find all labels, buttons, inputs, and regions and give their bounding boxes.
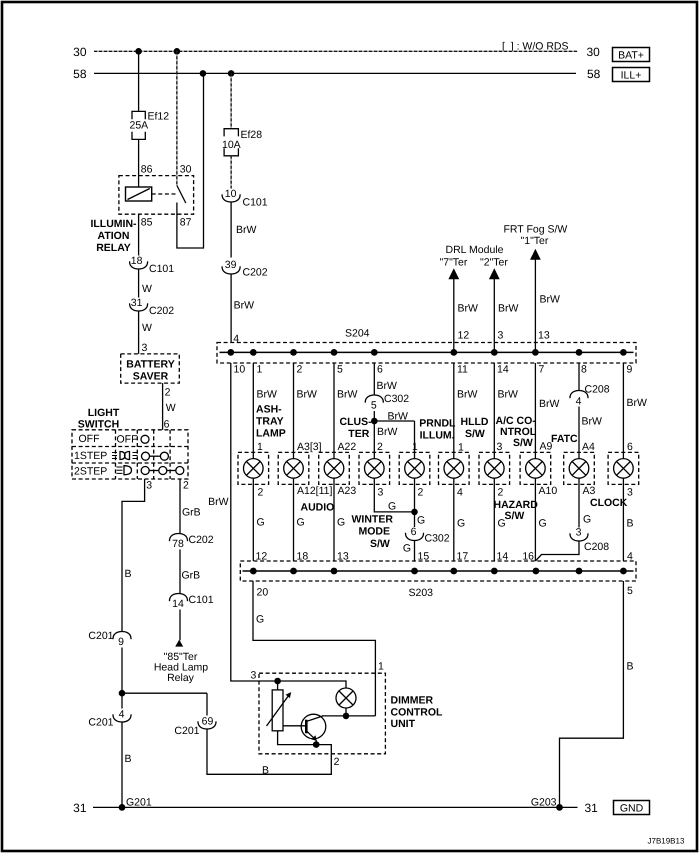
wire fuse Ef28 to C101-10 (dashed W/O RDS) xyxy=(230,156,232,189)
svg-text:2: 2 xyxy=(334,756,340,768)
svg-text:G201: G201 xyxy=(126,796,152,808)
wire to head lamp relay arrow xyxy=(179,610,181,641)
wire S204 pin 8 to C208-4 xyxy=(579,363,587,391)
svg-text:86: 86 xyxy=(141,163,153,175)
svg-text:PRNDL: PRNDL xyxy=(419,417,456,429)
lamp audio 1 xyxy=(278,452,309,484)
headlamp icon xyxy=(117,466,132,475)
relay coil-contact link xyxy=(152,193,176,195)
svg-text:GrB: GrB xyxy=(182,507,201,519)
connector C202 pin 78 xyxy=(169,534,213,551)
svg-text:S/W: S/W xyxy=(513,437,533,449)
svg-text:2: 2 xyxy=(297,364,303,376)
wire bus30 to relay contact 30 (dashed W/O RDS) xyxy=(177,51,192,185)
label FRT Fog SW terminal xyxy=(504,224,568,248)
fuse Ef28 10A xyxy=(222,129,262,156)
svg-text:OFF: OFF xyxy=(117,434,138,446)
svg-text:RELAY: RELAY xyxy=(96,242,131,254)
svg-text:12: 12 xyxy=(458,329,470,341)
svg-text:ASH-: ASH- xyxy=(256,404,282,416)
svg-text:LIGHT: LIGHT xyxy=(88,407,120,419)
svg-text:DIMMER: DIMMER xyxy=(391,695,434,707)
wire ashtray lamp to S203 pin 12 xyxy=(253,478,267,563)
wire BrW C101-10 to C202-39 xyxy=(231,202,256,258)
svg-text:ILLUMIN-: ILLUMIN- xyxy=(90,218,137,230)
svg-text:ILL+: ILL+ xyxy=(621,69,642,81)
node C302 branch xyxy=(371,418,378,425)
wire PRNDL lamp down xyxy=(415,478,426,527)
lamp audio 2 xyxy=(319,452,350,484)
wire rheostat bottom / emitter to pin 2 xyxy=(278,731,332,754)
wire C208-4 to A4 lamp xyxy=(579,407,602,459)
ground bus 31 xyxy=(73,801,598,815)
transistor Q1 xyxy=(283,714,326,744)
svg-text:C101: C101 xyxy=(149,263,174,275)
svg-text:18: 18 xyxy=(131,255,143,267)
svg-text:25A: 25A xyxy=(130,119,149,131)
connector C202 pin 39 xyxy=(222,259,268,279)
svg-text:3: 3 xyxy=(146,480,152,492)
fuse Ef12 25A xyxy=(130,111,170,140)
svg-text:3: 3 xyxy=(498,329,504,341)
svg-text:1STEP: 1STEP xyxy=(74,450,107,462)
svg-text:3: 3 xyxy=(627,486,633,498)
connector C101 pin 10 xyxy=(222,188,268,209)
svg-text:5: 5 xyxy=(337,364,343,376)
S203 junction dots xyxy=(250,568,627,575)
svg-text:G: G xyxy=(297,516,305,528)
bus 30 (BAT+) xyxy=(73,45,600,59)
illumination relay box xyxy=(119,176,194,215)
svg-text:6: 6 xyxy=(164,418,170,430)
svg-text:"2"Ter: "2"Ter xyxy=(480,257,508,269)
svg-text:G203: G203 xyxy=(531,796,557,808)
svg-text:SWITCH: SWITCH xyxy=(78,419,119,431)
svg-text:C302: C302 xyxy=(384,393,409,405)
svg-text:GND: GND xyxy=(620,802,644,814)
light switch box xyxy=(72,430,188,479)
svg-text:ILLUM.: ILLUM. xyxy=(420,429,455,441)
svg-text:A10: A10 xyxy=(539,485,558,497)
svg-text:14: 14 xyxy=(497,364,509,376)
svg-text:5: 5 xyxy=(371,399,377,411)
svg-text:G: G xyxy=(403,543,411,555)
svg-text:CLUS-: CLUS- xyxy=(340,416,373,428)
svg-text:6: 6 xyxy=(627,441,633,453)
wire junction to C201-69 xyxy=(122,692,207,694)
svg-text:BrW: BrW xyxy=(457,389,478,401)
svg-text:11: 11 xyxy=(457,364,468,376)
svg-text:58: 58 xyxy=(73,67,87,81)
park lamp icon xyxy=(112,452,138,460)
svg-text:G: G xyxy=(583,513,591,525)
svg-text:Relay: Relay xyxy=(167,672,195,684)
svg-text:UNIT: UNIT xyxy=(391,718,416,730)
svg-text:W: W xyxy=(142,322,152,334)
label CLUSTER xyxy=(340,416,373,440)
wire S204 pin 5 to audio lamp 2 xyxy=(334,363,358,459)
ground G203 xyxy=(531,796,563,810)
svg-text:CONTROL: CONTROL xyxy=(391,706,443,718)
svg-text:4: 4 xyxy=(457,486,463,498)
wire clock lamp to S203 pin 4 xyxy=(623,478,633,563)
rheostat xyxy=(267,681,292,731)
relay contact switch xyxy=(177,186,186,204)
svg-text:B: B xyxy=(262,764,269,776)
svg-text:BrW: BrW xyxy=(377,426,398,438)
node B junction xyxy=(119,690,126,697)
node lamp/collector xyxy=(343,713,350,720)
svg-text:BrW: BrW xyxy=(458,302,479,314)
arrow to FRT fog switch 1 Ter xyxy=(530,249,560,353)
svg-text:78: 78 xyxy=(172,538,184,550)
light switch row OFF xyxy=(79,433,150,446)
svg-text:A12[11]: A12[11] xyxy=(297,485,332,497)
wire relay 85 down xyxy=(138,214,140,255)
label ILLUMINATION RELAY xyxy=(90,218,137,254)
svg-text:6: 6 xyxy=(377,364,383,376)
svg-text:B: B xyxy=(627,517,634,529)
svg-text:BrW: BrW xyxy=(208,496,229,508)
svg-text:BrW: BrW xyxy=(540,294,561,306)
lamp cluster xyxy=(359,452,390,484)
wire relay 87 to bus58 xyxy=(177,74,204,248)
svg-text:14: 14 xyxy=(172,598,184,610)
svg-text:4: 4 xyxy=(233,333,239,345)
svg-text:1: 1 xyxy=(378,661,384,673)
svg-text:2: 2 xyxy=(498,486,504,498)
svg-text:2: 2 xyxy=(258,486,264,498)
lamp A/C control xyxy=(479,452,510,484)
svg-text:BrW: BrW xyxy=(297,389,318,401)
node dimmer pin3 xyxy=(274,678,281,685)
svg-text:13: 13 xyxy=(538,329,550,341)
svg-text:2: 2 xyxy=(165,387,171,399)
svg-text:8: 8 xyxy=(581,364,587,376)
svg-text:Ef28: Ef28 xyxy=(241,129,263,141)
svg-text:TER: TER xyxy=(348,428,369,440)
node bus58/relay87 xyxy=(200,70,207,77)
svg-text:G: G xyxy=(539,517,547,529)
lamp FATC xyxy=(520,452,551,484)
svg-text:A3[3]: A3[3] xyxy=(297,441,322,453)
svg-text:HLLD: HLLD xyxy=(461,416,489,428)
light switch row 1STEP xyxy=(74,450,168,462)
svg-text:BrW: BrW xyxy=(234,300,255,312)
connector C208 pin 3 xyxy=(570,527,609,554)
svg-text:3: 3 xyxy=(378,486,384,498)
svg-text:G: G xyxy=(257,516,265,528)
svg-text:2: 2 xyxy=(183,480,189,492)
wire S204 pin 11 to HLLD lamp xyxy=(454,363,478,459)
svg-text:9: 9 xyxy=(627,364,633,376)
S204 junction dots xyxy=(227,349,626,356)
svg-text:OFF: OFF xyxy=(79,433,100,445)
svg-text:58: 58 xyxy=(587,67,601,81)
svg-text:B: B xyxy=(125,568,132,580)
svg-text:S/W: S/W xyxy=(505,510,525,522)
svg-text:1: 1 xyxy=(257,364,263,376)
svg-text:CLOCK: CLOCK xyxy=(590,497,628,509)
svg-text:W: W xyxy=(142,283,152,295)
wire A3 lamp to C208-3 xyxy=(579,478,596,527)
wire bus30 to fuse Ef12 xyxy=(138,51,140,111)
svg-text:C208: C208 xyxy=(585,384,610,396)
wire branch BrW to PRNDL illum xyxy=(374,410,418,458)
svg-text:BrW: BrW xyxy=(377,380,398,392)
svg-text:S203: S203 xyxy=(409,587,434,599)
wire W C101-18 to C202-31 xyxy=(139,269,152,298)
svg-text:BrW: BrW xyxy=(498,302,519,314)
label DIMMER CONTROL UNIT xyxy=(391,695,443,730)
wire light switch 3 down xyxy=(122,479,152,632)
svg-text:4: 4 xyxy=(576,395,582,407)
svg-text:BrW: BrW xyxy=(236,224,257,236)
wire audio lamp A12 to S203 pin 18 xyxy=(294,478,333,563)
svg-text:LAMP: LAMP xyxy=(256,428,286,440)
svg-text:39: 39 xyxy=(225,259,237,271)
label HAZARD S/W xyxy=(494,499,539,522)
node bus58/Ef28 xyxy=(228,70,235,77)
svg-text:G: G xyxy=(388,501,396,513)
svg-text:B: B xyxy=(125,753,132,765)
relay coil xyxy=(126,187,152,201)
svg-text:ATION: ATION xyxy=(98,230,130,242)
svg-text:C101: C101 xyxy=(243,196,268,208)
connector C202 pin 31 xyxy=(130,297,175,317)
arrow to DRL module 2 Ter xyxy=(489,268,519,352)
battery saver box xyxy=(121,354,180,383)
wire S204 pin 7 to FATC lamp xyxy=(535,363,559,459)
node bus30/relay30 xyxy=(174,48,181,55)
wire cluster lamp to PRNDL return xyxy=(374,478,414,512)
label WINTER MODE S/W xyxy=(352,514,394,550)
wire C302-6 to S203 pin 15 xyxy=(403,541,430,563)
wire FATC lamp A10 to S203 pin 16 xyxy=(522,478,557,563)
svg-text:1: 1 xyxy=(257,441,263,453)
wire GrB to C101-14 xyxy=(180,550,200,594)
light switch row 2STEP xyxy=(74,466,184,478)
lamp HLLD xyxy=(439,452,470,484)
svg-text:6: 6 xyxy=(411,526,417,538)
svg-text:G: G xyxy=(457,517,465,529)
splice S203 box xyxy=(240,561,636,599)
wire C201-69 to dimmer pin 2 (B) xyxy=(207,729,331,776)
wire HLLD lamp to S203 pin 17 xyxy=(454,478,469,563)
svg-text:85: 85 xyxy=(141,217,153,229)
wire S203 pin 20 to dimmer pin 1 xyxy=(253,581,384,716)
label A/C CONTROL S/W xyxy=(496,415,537,449)
svg-text:B: B xyxy=(627,661,634,673)
svg-text:C201: C201 xyxy=(88,717,113,729)
svg-text:10: 10 xyxy=(234,364,246,376)
wire fuse Ef12 to relay coil 86 xyxy=(139,139,153,187)
svg-text:BATTERY: BATTERY xyxy=(126,359,174,371)
connector C101 pin 18 xyxy=(130,255,175,275)
ILL+ terminal box xyxy=(613,68,650,82)
wire S203 pin 5 to G203 xyxy=(560,581,634,807)
wire S204 pin 2 to audio lamp xyxy=(294,363,322,459)
wire S204 pin 1 to ashtray lamp xyxy=(253,363,277,459)
wire AC lamp to S203 pin 14 xyxy=(494,478,508,563)
svg-text:DRL Module: DRL Module xyxy=(446,244,504,256)
splice S204 box xyxy=(217,328,636,364)
svg-text:20: 20 xyxy=(257,587,269,599)
svg-text:S/W: S/W xyxy=(465,428,485,440)
svg-text:31: 31 xyxy=(73,801,87,815)
wire pin3 node to lamp xyxy=(278,681,346,688)
svg-text:A3: A3 xyxy=(583,485,596,497)
svg-text:W: W xyxy=(166,402,176,414)
wire S204 pin 10 to dimmer pin 3 xyxy=(208,363,278,681)
svg-text:10: 10 xyxy=(225,188,237,200)
lamp ash-tray xyxy=(238,452,269,484)
svg-text:A23: A23 xyxy=(338,485,357,497)
svg-text:C101: C101 xyxy=(189,594,214,606)
label LIGHT SWITCH xyxy=(78,407,120,431)
svg-text:C202: C202 xyxy=(149,305,174,317)
svg-text:2STEP: 2STEP xyxy=(74,466,107,478)
svg-text:G: G xyxy=(337,516,345,528)
wire W to battery saver pin 3 xyxy=(139,311,152,354)
svg-text:Ef12: Ef12 xyxy=(148,111,170,123)
svg-text:30: 30 xyxy=(587,45,601,59)
svg-text:BrW: BrW xyxy=(388,410,409,422)
svg-text:87: 87 xyxy=(180,217,192,229)
connector C302 pin 5 xyxy=(365,393,409,411)
svg-text:9: 9 xyxy=(118,636,124,648)
svg-text:J7B19B13: J7B19B13 xyxy=(648,837,685,846)
node emitter xyxy=(313,741,320,748)
svg-text:"1"Ter: "1"Ter xyxy=(521,235,549,247)
svg-text:S/W: S/W xyxy=(370,538,390,550)
svg-text:BrW: BrW xyxy=(539,398,560,410)
connector C208 pin 4 xyxy=(570,384,610,408)
node bus30/Ef12 xyxy=(135,48,142,55)
node PRNDL/cluster join xyxy=(411,509,418,516)
svg-text:AUDIO: AUDIO xyxy=(301,502,335,514)
wire S204 pin 6 to C302-5 xyxy=(374,363,397,395)
svg-text:2: 2 xyxy=(418,486,424,498)
svg-text:MODE: MODE xyxy=(359,526,391,538)
svg-text:2: 2 xyxy=(377,441,383,453)
svg-text:TRAY: TRAY xyxy=(256,416,284,428)
wire C208-3 to S203 pin 16 join xyxy=(535,541,579,561)
arrow to 85 Ter head lamp relay xyxy=(175,640,183,647)
svg-text:BrW: BrW xyxy=(498,389,519,401)
label HLLD S/W xyxy=(461,416,489,440)
dimmer lamp xyxy=(336,688,356,716)
lamp clock xyxy=(608,452,639,484)
svg-text:C202: C202 xyxy=(243,267,268,279)
label 85Ter Head Lamp Relay xyxy=(154,651,208,684)
svg-text:3: 3 xyxy=(497,441,503,453)
svg-text:G: G xyxy=(256,613,264,625)
wire light switch 2 (GrB) xyxy=(180,479,201,534)
ground G201 xyxy=(119,796,152,810)
wire collector line to pin 1 xyxy=(322,715,375,717)
svg-text:5: 5 xyxy=(627,585,633,597)
svg-text:A4: A4 xyxy=(582,441,595,453)
lamp PRNDL xyxy=(399,452,430,484)
svg-text:WINTER: WINTER xyxy=(352,514,394,526)
wire S204 pin 14 to AC control lamp xyxy=(494,363,518,459)
svg-text:FRT Fog S/W: FRT Fog S/W xyxy=(504,224,568,236)
svg-text:GrB: GrB xyxy=(182,570,201,582)
svg-text:SAVER: SAVER xyxy=(133,371,169,383)
svg-text:1: 1 xyxy=(412,441,418,453)
svg-text:10A: 10A xyxy=(222,139,241,151)
svg-text:31: 31 xyxy=(585,801,599,815)
svg-text:4: 4 xyxy=(119,708,125,720)
wire C201-9 to junction xyxy=(121,648,123,709)
connector C201 pin 9 xyxy=(88,630,131,648)
svg-text:BrW: BrW xyxy=(337,389,358,401)
svg-text:BrW: BrW xyxy=(257,389,278,401)
svg-text:G: G xyxy=(417,514,425,526)
svg-text:C201: C201 xyxy=(88,630,113,642)
svg-text:30: 30 xyxy=(73,45,87,59)
connector C302 pin 6 xyxy=(405,526,449,544)
svg-text:BAT+: BAT+ xyxy=(618,49,644,61)
lamp A4/A3 xyxy=(564,452,595,484)
label PRNDL ILLUM xyxy=(419,417,456,441)
wire C302-5 to cluster lamp xyxy=(374,411,397,459)
wire BrW C202-39 to S204 pin 4 xyxy=(231,274,254,345)
label ASH-TRAY LAMP xyxy=(256,404,286,440)
arrow to DRL module 7 Ter xyxy=(448,268,478,352)
svg-text:C208: C208 xyxy=(584,541,609,553)
svg-text:31: 31 xyxy=(131,297,143,309)
relay pin labels 85 87 xyxy=(141,217,192,229)
wire bus58 to fuse Ef28 (dashed W/O RDS) xyxy=(230,73,232,128)
svg-text:S204: S204 xyxy=(345,328,370,340)
svg-text:A22: A22 xyxy=(338,441,357,453)
wire B to G201 xyxy=(122,722,132,807)
light switch grid lines xyxy=(72,430,188,479)
svg-text:7: 7 xyxy=(539,364,545,376)
svg-text:BrW: BrW xyxy=(627,397,648,409)
label DRL Module terminals xyxy=(440,244,509,269)
BAT+ terminal box xyxy=(613,48,650,62)
connector C101 pin 14 xyxy=(169,594,213,611)
wire S204 pin 9 to clock lamp xyxy=(623,363,647,459)
svg-text:30: 30 xyxy=(180,163,192,175)
svg-text:C201: C201 xyxy=(174,725,199,737)
svg-text:69: 69 xyxy=(202,716,214,728)
svg-text:FATC: FATC xyxy=(551,433,578,445)
svg-text:C302: C302 xyxy=(425,532,450,544)
connector C201 pin 4 xyxy=(88,708,131,728)
connector C201 pin 69 xyxy=(174,716,216,738)
svg-text:3: 3 xyxy=(142,342,148,354)
GND terminal box xyxy=(614,801,650,815)
dimmer control unit box xyxy=(259,673,385,754)
svg-text:C202: C202 xyxy=(189,534,214,546)
wire battery saver 2 to light switch 6 xyxy=(163,383,176,430)
svg-text:"7"Ter: "7"Ter xyxy=(440,257,468,269)
svg-text:3: 3 xyxy=(576,527,582,539)
svg-text:3: 3 xyxy=(251,670,257,682)
svg-text:BrW: BrW xyxy=(582,416,603,428)
wire audio lamp A23 to S203 pin 13 xyxy=(334,478,356,563)
bus 58 (ILL+) xyxy=(73,67,601,81)
